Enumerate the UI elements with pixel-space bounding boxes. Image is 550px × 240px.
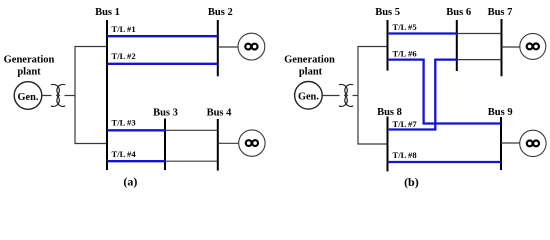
infinite bus circle lower (a)	[239, 130, 265, 156]
infinite bus circle upper (a)	[238, 33, 265, 60]
svg-text:Gen.: Gen.	[18, 92, 39, 103]
node Bus 5	[375, 7, 400, 70]
T/L #1	[107, 24, 218, 36]
label Generation plant (b)	[284, 55, 335, 78]
wire Bus4 to infinite bus (a)	[218, 142, 239, 144]
svg-text:Bus 6: Bus 6	[446, 7, 471, 18]
svg-text:Generation: Generation	[4, 55, 55, 66]
node Bus 1	[95, 7, 120, 170]
svg-text:Gen.: Gen.	[298, 92, 319, 103]
svg-text:T/L #6: T/L #6	[393, 48, 418, 58]
wire Gen to transformer (a)	[42, 95, 52, 97]
wire transformer to riser (a)	[65, 95, 76, 97]
svg-text:plant: plant	[17, 67, 41, 78]
wire Bus7 to infinite bus (b)	[502, 46, 520, 48]
svg-text:Bus 1: Bus 1	[95, 7, 120, 18]
node Bus 7	[488, 7, 513, 76]
wire riser with connectors (a)	[75, 47, 107, 144]
wire Bus6 to Bus7 upper	[457, 33, 502, 35]
wire transformer to riser (b)	[353, 95, 359, 97]
svg-text:T/L #2: T/L #2	[112, 51, 136, 61]
node Bus 8	[377, 107, 402, 172]
node Bus 4	[207, 107, 233, 170]
generator Gen. (b)	[295, 82, 323, 110]
svg-text:(b): (b)	[404, 175, 419, 189]
T/L #5	[388, 22, 457, 33]
T/L #8	[388, 150, 502, 162]
T/L #4	[107, 149, 165, 161]
wire riser with connectors (b)	[358, 47, 388, 145]
svg-text:Bus 3: Bus 3	[153, 107, 178, 118]
node Bus 2	[208, 7, 233, 76]
wire Bus9 to infinite bus (b)	[501, 142, 520, 144]
wire Bus2 to infinite bus (a)	[218, 46, 238, 48]
label Generation plant	[4, 55, 55, 78]
svg-text:Bus 7: Bus 7	[488, 7, 513, 18]
svg-text:Bus 5: Bus 5	[375, 7, 400, 18]
svg-text:Generation: Generation	[284, 55, 335, 66]
svg-text:(a): (a)	[123, 174, 137, 188]
svg-text:Bus 8: Bus 8	[377, 107, 402, 118]
generator Gen. (a)	[14, 82, 42, 110]
svg-text:T/L #8: T/L #8	[393, 150, 418, 160]
wire Bus3 to Bus4 lower	[165, 160, 218, 162]
svg-text:T/L #5: T/L #5	[393, 22, 417, 32]
svg-text:T/L #3: T/L #3	[112, 117, 136, 127]
T/L #2	[107, 51, 218, 64]
wire Bus3 to Bus4 upper	[165, 129, 218, 131]
wire Bus6 to Bus7 lower	[457, 59, 502, 61]
transformer (a)	[51, 84, 65, 106]
node Bus 9	[488, 107, 513, 170]
transformer (b)	[339, 84, 353, 106]
svg-text:Bus 9: Bus 9	[488, 107, 513, 118]
infinite bus circle upper (b)	[520, 33, 546, 59]
svg-text:Bus 4: Bus 4	[207, 107, 233, 118]
T/L #6	[388, 48, 502, 123]
T/L #7	[388, 60, 457, 130]
node Bus 6	[446, 7, 471, 71]
T/L #3	[107, 117, 165, 130]
svg-text:Bus 2: Bus 2	[208, 7, 233, 18]
wire Gen to transformer (b)	[322, 95, 339, 97]
svg-text:plant: plant	[299, 67, 323, 78]
svg-text:T/L #4: T/L #4	[112, 149, 137, 159]
svg-text:T/L #1: T/L #1	[112, 24, 136, 34]
infinite bus circle lower (b)	[520, 130, 546, 156]
node Bus 3	[153, 107, 178, 170]
svg-text:T/L #7: T/L #7	[393, 119, 418, 129]
